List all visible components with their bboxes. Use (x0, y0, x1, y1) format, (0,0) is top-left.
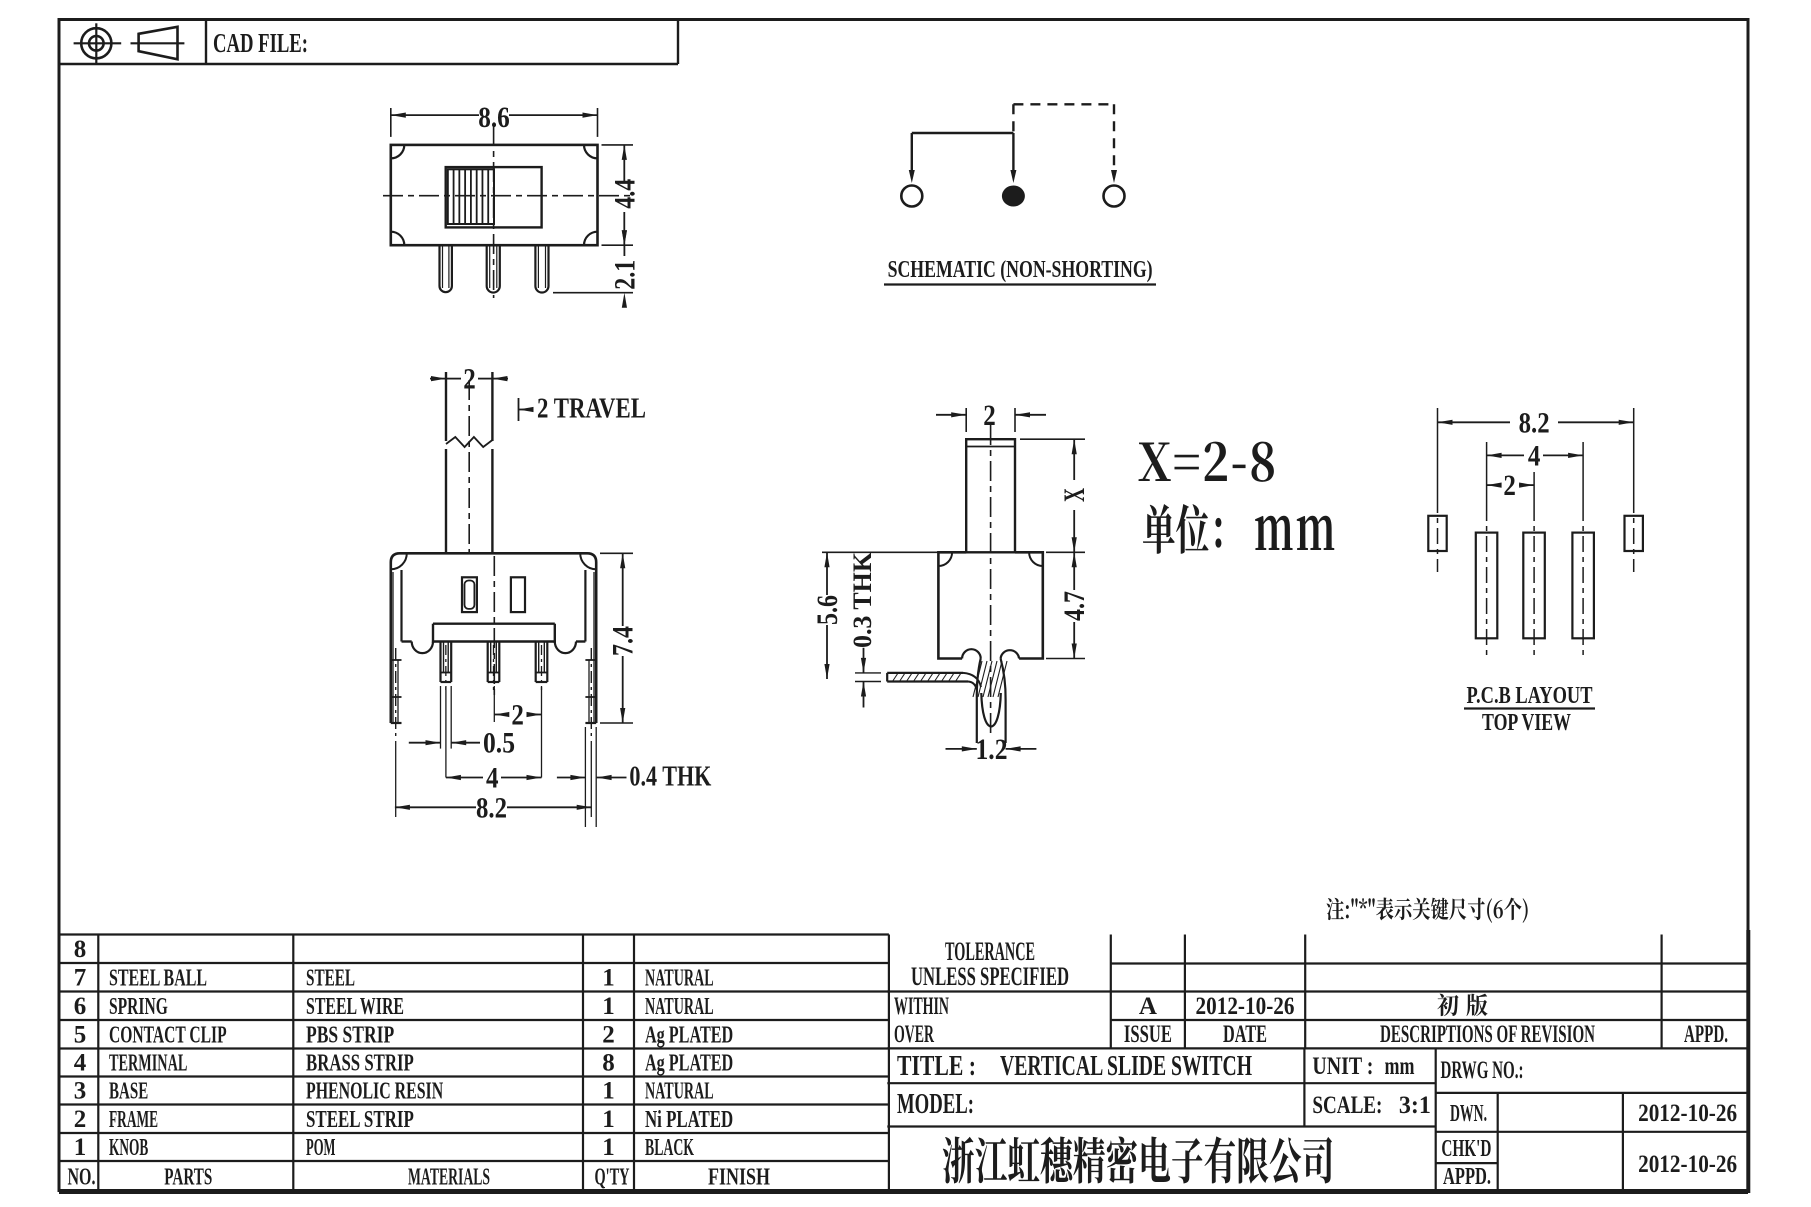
side view centerline (990, 425, 992, 735)
svg-text:BLACK: BLACK (645, 1135, 694, 1161)
svg-text:TERMINAL: TERMINAL (109, 1051, 187, 1077)
dim 1.2 (976, 700, 978, 760)
schematic dashed wire (1013, 103, 1114, 105)
svg-text:0.3 THK: 0.3 THK (848, 551, 877, 648)
svg-text:5.6: 5.6 (811, 595, 844, 625)
front view bottom edge with notches (402, 640, 412, 642)
svg-text:BRASS STRIP: BRASS STRIP (306, 1051, 414, 1077)
title block lines (887, 1082, 1435, 1084)
dim 0.3 THK (855, 672, 881, 674)
front view contact window left (462, 577, 477, 612)
top view corner fillets (391, 145, 405, 159)
front view left leg inner edge (400, 570, 402, 642)
side view center pin blade (977, 659, 981, 744)
front view corner notch ticks (391, 553, 407, 569)
svg-text:KNOB: KNOB (109, 1135, 148, 1161)
top view knob serrated part (448, 169, 494, 224)
svg-text:2.1: 2.1 (608, 260, 641, 290)
pcb small pad right (1625, 516, 1643, 551)
front view right leg inner edge (584, 570, 586, 642)
top view pins (440, 245, 452, 292)
svg-text:0.5: 0.5 (483, 727, 515, 760)
svg-text:PHENOLIC RESIN: PHENOLIC RESIN (306, 1079, 444, 1105)
svg-text:Q'TY: Q'TY (595, 1164, 630, 1190)
svg-text:APPD.: APPD. (1443, 1164, 1491, 1190)
svg-text:MODEL:: MODEL: (897, 1088, 974, 1120)
front view stem (445, 372, 447, 441)
schematic right terminal circle (1104, 186, 1125, 207)
svg-text:STEEL WIRE: STEEL WIRE (306, 994, 404, 1020)
svg-text:Ag PLATED: Ag PLATED (645, 1051, 733, 1077)
svg-text:3:1: 3:1 (1399, 1092, 1431, 1119)
dim 4 (446, 777, 483, 779)
svg-text:1: 1 (602, 1134, 615, 1161)
dim 2 (pins) (494, 714, 508, 716)
top view vertical centerline (493, 126, 495, 298)
svg-text:1: 1 (602, 964, 615, 991)
svg-text:DRWG NO.:: DRWG NO.: (1441, 1057, 1524, 1084)
svg-text:DWN.: DWN. (1450, 1101, 1487, 1127)
front view leg wall lines (392, 572, 394, 723)
front view pins (439, 642, 441, 683)
svg-text:Ag PLATED: Ag PLATED (645, 1022, 733, 1048)
svg-text:2: 2 (1503, 469, 1516, 502)
svg-text:MATERIALS: MATERIALS (408, 1164, 490, 1190)
svg-text:4.7: 4.7 (1058, 591, 1091, 621)
svg-text:BASE: BASE (109, 1079, 148, 1105)
side view solder tab (887, 672, 963, 674)
svg-text:UNIT :: UNIT : (1312, 1053, 1373, 1080)
svg-text:POM: POM (306, 1135, 335, 1161)
dim 4.7 (1046, 658, 1085, 660)
dim 5.6 (822, 551, 938, 553)
svg-text:Ni PLATED: Ni PLATED (645, 1107, 733, 1133)
svg-text:1: 1 (602, 1106, 615, 1133)
svg-text:FRAME: FRAME (109, 1107, 158, 1133)
front view leg centerlines (395, 648, 397, 738)
chu ban revision text (1437, 994, 1458, 1017)
schematic solid wire (912, 132, 1014, 134)
svg-text:SPRING: SPRING (109, 994, 168, 1020)
svg-text:NATURAL: NATURAL (645, 994, 714, 1020)
svg-text:4.4: 4.4 (608, 179, 641, 209)
svg-text:NATURAL: NATURAL (645, 965, 714, 991)
front view body (391, 553, 596, 723)
revision block lines (1111, 962, 1748, 964)
parts table vertical lines (97, 935, 99, 1191)
svg-text:0.4 THK: 0.4 THK (629, 761, 711, 793)
pcb small pad left (1428, 516, 1446, 551)
front view leg ticks (391, 659, 402, 661)
svg-text:8.6: 8.6 (478, 101, 510, 134)
svg-text:PBS STRIP: PBS STRIP (306, 1022, 394, 1048)
svg-text:NATURAL: NATURAL (645, 1079, 714, 1105)
top view horizontal centerline (383, 195, 630, 197)
third-angle projection symbol: cone (131, 42, 185, 44)
unit mm text (1143, 504, 1221, 554)
dim 7.4 (600, 552, 633, 554)
svg-text:2012-10-26: 2012-10-26 (1638, 1100, 1737, 1127)
schematic middle terminal filled (1002, 186, 1025, 207)
svg-text:ISSUE: ISSUE (1124, 1021, 1172, 1048)
title header box line (59, 63, 678, 65)
dim 8.2 (front) (395, 806, 476, 808)
svg-text:4: 4 (486, 762, 499, 795)
side view body (938, 552, 966, 658)
svg-text:WITHIN: WITHIN (894, 993, 949, 1020)
svg-text:8.2: 8.2 (476, 791, 507, 824)
svg-text:P.C.B LAYOUT: P.C.B LAYOUT (1467, 683, 1593, 709)
dim 0.5 (409, 742, 441, 744)
svg-text:1: 1 (602, 993, 615, 1020)
svg-text:X: X (1058, 488, 1091, 502)
svg-text:STEEL: STEEL (306, 965, 355, 991)
svg-text:OVER: OVER (894, 1021, 935, 1048)
svg-text:DATE: DATE (1223, 1021, 1267, 1048)
dim 4.4 (602, 144, 634, 146)
svg-text:2012-10-26: 2012-10-26 (1638, 1151, 1737, 1178)
svg-text:2 TRAVEL: 2 TRAVEL (537, 393, 646, 425)
X=2-8 text (1139, 442, 1274, 482)
front dim 2 (stem) (430, 378, 446, 380)
front view skirt step (433, 623, 555, 625)
schematic left terminal circle (901, 186, 922, 207)
pcb centerlines (1437, 497, 1439, 572)
tab hatching (893, 674, 898, 681)
parts table horizontal lines (59, 933, 889, 935)
svg-text:PARTS: PARTS (164, 1164, 212, 1190)
third-angle projection symbol: circle (81, 28, 111, 58)
svg-text:TOP VIEW: TOP VIEW (1482, 710, 1571, 736)
svg-text:SCHEMATIC (NON-SHORTING): SCHEMATIC (NON-SHORTING) (888, 257, 1153, 283)
svg-text:UNLESS SPECIFIED: UNLESS SPECIFIED (911, 962, 1069, 991)
dim X (1020, 438, 1085, 440)
svg-text:2: 2 (74, 1106, 87, 1133)
svg-text:4: 4 (1528, 439, 1541, 472)
pcb dim 2 (1487, 484, 1500, 486)
svg-text:5: 5 (74, 1021, 87, 1048)
bend hatching (973, 661, 982, 697)
svg-text:CAD FILE:: CAD FILE: (213, 28, 308, 58)
svg-text:7.4: 7.4 (607, 626, 640, 656)
svg-text:CHK'D: CHK'D (1441, 1136, 1491, 1162)
svg-text:6: 6 (74, 993, 87, 1020)
svg-text:2: 2 (602, 1021, 615, 1048)
svg-text:2012-10-26: 2012-10-26 (1196, 993, 1295, 1020)
top view knob outer rect (446, 167, 542, 227)
front view contact window right (511, 577, 525, 612)
front view leg bottoms (391, 722, 402, 724)
svg-text:VERTICAL SLIDE SWITCH: VERTICAL SLIDE SWITCH (1000, 1050, 1252, 1082)
svg-text:FINISH: FINISH (708, 1164, 770, 1190)
pcb big pads (1476, 533, 1498, 639)
svg-text:A: A (1139, 993, 1157, 1020)
svg-text:2: 2 (463, 363, 476, 396)
svg-text:1: 1 (74, 1134, 87, 1161)
svg-text:3: 3 (74, 1078, 87, 1105)
company name (943, 1136, 1332, 1183)
svg-text:CONTACT CLIP: CONTACT CLIP (109, 1022, 227, 1048)
dim 2.1 (553, 292, 633, 294)
svg-text:1.2: 1.2 (976, 733, 1008, 766)
svg-text:SCALE:: SCALE: (1312, 1092, 1382, 1119)
dim 0.4 THK (557, 777, 586, 779)
front leg extension lines (395, 741, 397, 817)
top view body outline (391, 145, 598, 245)
svg-text:1: 1 (602, 1078, 615, 1105)
pcb ext lines (1437, 408, 1439, 497)
front dim 2 TRAVEL (518, 398, 520, 421)
svg-text:NO.: NO. (68, 1164, 96, 1190)
dim 8.6 (390, 108, 392, 137)
svg-text:STEEL STRIP: STEEL STRIP (306, 1107, 414, 1133)
front pin extension lines (440, 686, 442, 749)
svg-text:APPD.: APPD. (1684, 1021, 1728, 1048)
svg-text:mm: mm (1385, 1053, 1415, 1080)
svg-text:DESCRIPTIONS OF REVISION: DESCRIPTIONS OF REVISION (1380, 1021, 1595, 1048)
pcb dim 8.2 (1438, 421, 1511, 423)
svg-text:8: 8 (74, 936, 87, 963)
svg-text:2: 2 (983, 399, 996, 432)
svg-text:8: 8 (602, 1050, 615, 1077)
svg-text:TITLE :: TITLE : (897, 1050, 976, 1082)
side bottom notch arcs (962, 649, 981, 658)
side body corner fillets (938, 552, 952, 566)
pcb dim 4 (1487, 454, 1524, 456)
top view knob serration lines (453, 169, 455, 224)
svg-text:7: 7 (74, 964, 87, 991)
front view center vline (493, 556, 495, 700)
front view stem centerline (468, 380, 470, 553)
svg-text:STEEL BALL: STEEL BALL (109, 965, 207, 991)
side view stem (966, 439, 1015, 552)
svg-text:8.2: 8.2 (1519, 406, 1550, 439)
note text (1327, 897, 1528, 922)
svg-text:4: 4 (74, 1050, 87, 1077)
front view stem break squiggle (446, 437, 492, 447)
side dim 2 (965, 408, 967, 432)
